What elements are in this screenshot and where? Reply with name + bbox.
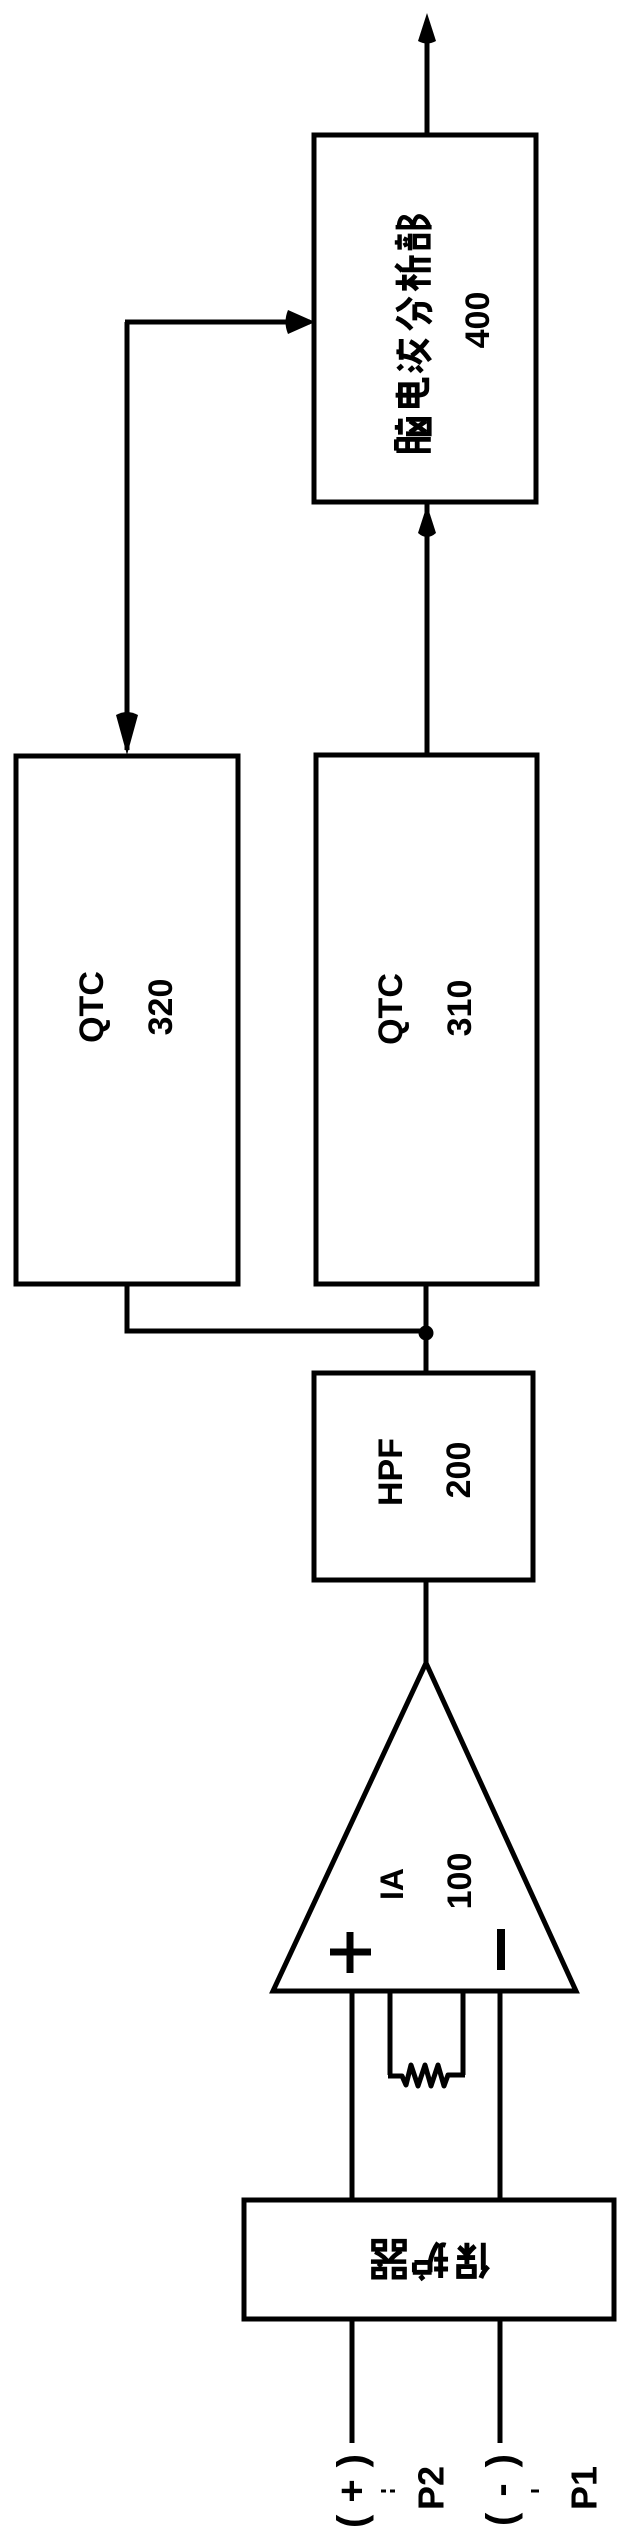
svg-text:P1: P1	[564, 2466, 605, 2510]
arrowhead into 400 left (right)	[286, 310, 316, 334]
svg-text:(+): (+)	[330, 2442, 374, 2528]
svg-text:HPF: HPF	[372, 1438, 410, 1506]
svg-text:200: 200	[440, 1442, 478, 1499]
svg-text:100: 100	[441, 1853, 479, 1910]
svg-text:320: 320	[142, 979, 180, 1036]
wire minus input	[498, 1991, 503, 2202]
block electrode protector (保护器)	[244, 2200, 614, 2319]
svg-text:QTC: QTC	[73, 971, 111, 1043]
dash P1	[531, 2490, 539, 2493]
wire feedback horizontal (into block 400 left)	[125, 320, 310, 325]
svg-text:310: 310	[441, 980, 479, 1037]
label 脑电波分析部 (rotated)	[395, 216, 432, 450]
wire plus input	[350, 1991, 355, 2202]
wire plus terminal	[350, 2319, 355, 2443]
op-amp IA 100 (instrumentation amplifier triangle)	[273, 1663, 576, 1991]
wire QTC310 to HPF	[424, 1284, 429, 1373]
plus input marking	[330, 1932, 371, 1973]
wire minus terminal	[498, 2319, 503, 2443]
block HPF 200	[314, 1373, 533, 1580]
svg-text:QTC: QTC	[372, 973, 410, 1045]
block QTC 320	[16, 756, 238, 1284]
svg-text:P2: P2	[411, 2466, 452, 2510]
arrowhead into 400 bottom (up)	[418, 505, 436, 537]
resistor Rg (gain resistor zigzag)	[388, 2065, 465, 2086]
label 保护器 (rotated 180)	[371, 2241, 488, 2280]
svg-text:(-): (-)	[479, 2438, 523, 2526]
wire HPF to amplifier apex	[424, 1580, 429, 1668]
wire feedback vertical (to QTC320 top)	[125, 322, 130, 750]
svg-text:400: 400	[459, 292, 497, 349]
arrowhead into QTC320 top (down)	[116, 712, 138, 755]
junction node	[419, 1326, 434, 1341]
wire resistor left leg	[388, 1991, 393, 2075]
arrowhead output (up)	[418, 13, 436, 44]
wire resistor right leg	[461, 1991, 466, 2075]
block QTC 310	[316, 755, 537, 1284]
svg-text:IA: IA	[374, 1868, 410, 1900]
wire QTC310 to block 400	[425, 504, 430, 757]
wire junction horizontal	[125, 1329, 427, 1334]
block 400 (EEG analysis unit)	[314, 135, 536, 502]
wire output of block 400	[425, 40, 430, 137]
wire QTC320 bottom stub	[125, 1284, 130, 1331]
dash P2	[381, 2490, 395, 2493]
minus input marking (rotated)	[497, 1929, 505, 1970]
